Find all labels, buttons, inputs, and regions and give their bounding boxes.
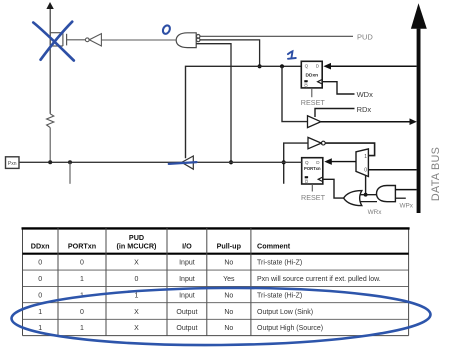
wire mux input0 from bus	[368, 169, 416, 171]
svg-text:Q: Q	[304, 83, 308, 88]
wire DATA BUS to DDxn D	[329, 65, 417, 67]
wire mux select	[365, 175, 367, 194]
svg-text:PORTxn: PORTxn	[68, 242, 96, 251]
svg-text:Output: Output	[176, 325, 197, 332]
svg-text:RESET: RESET	[301, 98, 326, 107]
table row lines	[23, 270, 409, 319]
wire O1 input2 WRx	[360, 201, 377, 203]
svg-text:0: 0	[38, 276, 42, 283]
pin clock wedge PORTxn	[318, 177, 323, 182]
node junction dots on pin line	[48, 160, 52, 164]
buffer U4 output driver	[182, 156, 194, 169]
VCC power arrow	[49, 9, 51, 114]
svg-text:WPx: WPx	[400, 203, 414, 210]
wire WDx	[322, 82, 354, 94]
svg-text:1: 1	[364, 154, 367, 160]
svg-text:X: X	[134, 325, 139, 332]
svg-text:1: 1	[135, 292, 139, 299]
table header row	[31, 233, 291, 251]
mux M1	[356, 149, 368, 177]
svg-text:Q: Q	[305, 160, 309, 165]
svg-text:DDxn: DDxn	[306, 72, 319, 78]
wire DDxn Q horizontal and enable drop	[186, 66, 302, 158]
wire U3 input from pin line	[284, 143, 308, 184]
svg-text:Input: Input	[179, 260, 195, 267]
wire RDx buffer input tap	[280, 64, 284, 68]
svg-text:DATA BUS: DATA BUS	[430, 147, 442, 201]
svg-text:No: No	[224, 292, 233, 299]
wire O1 output to PORTxn clock	[323, 179, 344, 198]
table outer border	[23, 228, 409, 336]
wire stub below pin line left	[69, 162, 71, 184]
node annotation ellipse around table rows	[11, 286, 431, 347]
wire G1 input2 to DDxn Q	[200, 40, 260, 66]
pin clock wedge DDxn	[318, 79, 323, 84]
flip-flop DDxn	[301, 61, 322, 88]
svg-text:Input: Input	[179, 292, 195, 299]
node junction dot	[258, 64, 262, 68]
svg-text:Pull-up: Pull-up	[217, 242, 242, 251]
wire G1 input3 to PORTxn Q	[196, 44, 231, 163]
svg-text:Pxn: Pxn	[8, 161, 17, 167]
svg-text:Yes: Yes	[223, 276, 235, 283]
svg-text:0: 0	[135, 276, 139, 283]
svg-text:PORTxn: PORTxn	[304, 166, 321, 171]
table data rows	[38, 260, 381, 333]
wire G2 output to OR	[360, 194, 377, 196]
wire RESET stub PORTxn	[311, 184, 313, 192]
and gate G2 (WPx, mirrored)	[377, 186, 396, 202]
node Pxn pad	[6, 157, 20, 169]
node annotation stroke through buffer	[169, 162, 197, 164]
svg-text:Output Low (Sink): Output Low (Sink)	[257, 309, 313, 316]
svg-text:Q: Q	[305, 63, 309, 68]
wire G2 input1 from bus	[395, 189, 416, 191]
wire G2 input2 WPx stub	[395, 197, 405, 199]
svg-text:Input: Input	[179, 276, 195, 283]
svg-text:Comment: Comment	[257, 242, 291, 251]
svg-text:Tri-state (Hi-Z): Tri-state (Hi-Z)	[257, 260, 302, 267]
inverter U3 (pin feedback)	[308, 137, 321, 148]
svg-text:1: 1	[38, 309, 42, 316]
svg-text:0: 0	[38, 260, 42, 267]
transistor pull-up MOSFET	[50, 33, 85, 46]
svg-text:WRx: WRx	[368, 209, 383, 216]
svg-text:0: 0	[80, 309, 84, 316]
wire mux output to PORTxn D	[330, 161, 356, 163]
svg-text:Output High (Source): Output High (Source)	[257, 325, 323, 332]
resistor (pull-up)	[47, 114, 54, 128]
svg-text:DDxn: DDxn	[31, 242, 50, 251]
svg-text:0: 0	[80, 260, 84, 267]
svg-text:No: No	[224, 309, 233, 316]
wire RESET stub DDxn	[311, 88, 313, 97]
svg-text:Tri-state (Hi-Z): Tri-state (Hi-Z)	[257, 292, 302, 299]
wire vertical to pin line	[49, 128, 51, 163]
or gate O1 (PORTxn clock, mirrored)	[344, 191, 362, 206]
svg-text:X: X	[134, 309, 139, 316]
svg-text:No: No	[224, 260, 233, 267]
svg-text:X: X	[134, 260, 139, 267]
wire U3 output to mux input 1	[325, 143, 374, 156]
svg-text:0: 0	[38, 292, 42, 299]
AND gate G1 (pull-up enable, mirrored)	[176, 33, 200, 48]
svg-text:1: 1	[80, 325, 84, 332]
buffer U2 (read DDRx, tri-state)	[308, 116, 321, 128]
node annotation 0	[162, 24, 172, 35]
svg-text:Pxn will source current if ext: Pxn will source current if ext. pulled l…	[257, 276, 381, 283]
svg-text:No: No	[224, 325, 233, 332]
svg-text:Q: Q	[305, 179, 309, 184]
node annotation 1	[288, 51, 296, 59]
node junction dot	[229, 160, 233, 164]
svg-text:Output: Output	[176, 309, 197, 316]
svg-text:PUD: PUD	[357, 33, 373, 42]
svg-text:WDx: WDx	[357, 90, 373, 99]
svg-text:1: 1	[80, 276, 84, 283]
wire pin line (buffer to PORTxn Q)	[193, 161, 301, 163]
wire RDx	[315, 109, 355, 118]
inverter B1 (gate driver)	[85, 34, 176, 46]
wire pin line (Pxn to output buffer)	[19, 161, 182, 163]
node annotation X over MOSFET	[33, 22, 74, 61]
svg-text:RDx: RDx	[357, 105, 372, 114]
table column lines	[58, 228, 251, 336]
svg-text:I/O: I/O	[182, 242, 192, 251]
svg-text:(in MCUCR): (in MCUCR)	[117, 242, 158, 251]
flip-flop PORTxn	[302, 158, 323, 184]
svg-text:0: 0	[364, 168, 367, 174]
wire PUD input	[200, 35, 353, 37]
wire DATA BUS	[417, 29, 421, 213]
svg-text:RESET: RESET	[301, 193, 326, 202]
wire U2 output to bus	[321, 121, 412, 123]
